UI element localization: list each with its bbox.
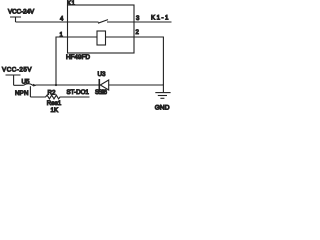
relay coil (68, 31, 135, 45)
svg-text:HF49FD: HF49FD (66, 54, 91, 61)
relay K1 (60, 0, 141, 61)
svg-text:VCC-25V: VCC-25V (2, 67, 32, 74)
svg-text:K1-1: K1-1 (151, 14, 169, 21)
svg-text:Res1: Res1 (47, 100, 62, 107)
svg-text:3: 3 (136, 16, 140, 22)
svg-text:GND: GND (155, 105, 170, 112)
svg-text:NPN: NPN (15, 90, 29, 97)
svg-text:ST-DO1: ST-DO1 (67, 89, 90, 96)
diode U3 SS16 (95, 71, 109, 96)
wire VCC-25V to transistor (14, 84, 24, 86)
net label K1-1 (134, 14, 172, 22)
svg-text:U3: U3 (98, 71, 106, 78)
svg-text:4: 4 (60, 16, 64, 22)
transistor U5 NPN (15, 79, 37, 97)
wire K1 pin 1 down to node (56, 37, 68, 85)
resistor R2 Res1 1K (30, 89, 89, 114)
power VCC-24V (8, 9, 35, 22)
wire K1 pin 2 to GND (134, 37, 163, 85)
relay contact (switch) (68, 20, 135, 24)
power VCC-25V (2, 67, 32, 86)
svg-text:2: 2 (136, 30, 140, 36)
svg-text:VCC-24V: VCC-24V (8, 9, 35, 16)
svg-text:SS16: SS16 (95, 89, 108, 96)
wire VCC-24V to K1 pin 4 (16, 21, 68, 23)
node junction dot (55, 84, 57, 86)
svg-text:1K: 1K (51, 107, 59, 114)
wire node to diode and GND line (36, 84, 163, 86)
ground GND (155, 84, 171, 112)
